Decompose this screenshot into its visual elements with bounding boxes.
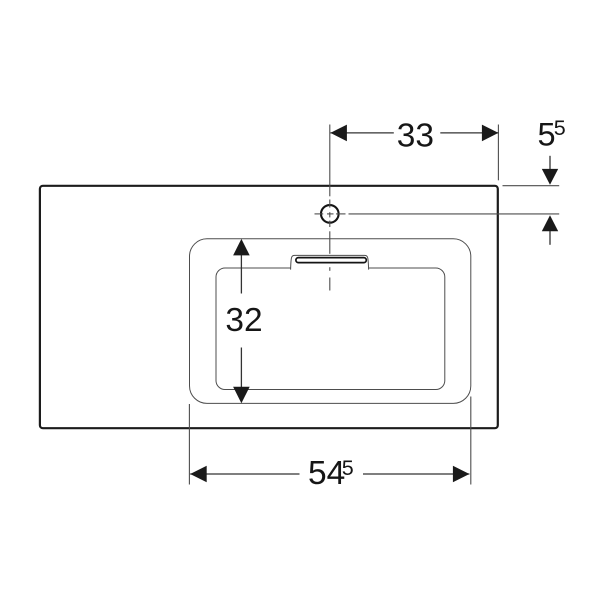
- extension line right (54.5 dim): [470, 397, 472, 485]
- extension line right (33 dim): [497, 125, 499, 181]
- overflow slot: [296, 258, 366, 263]
- dimension line 54.5: [190, 473, 469, 475]
- arrow down (32): [233, 387, 250, 404]
- basin inner wall (top edge interrupted by overflow): [216, 268, 445, 390]
- svg-text:32: 32: [225, 302, 262, 339]
- tap hole: [321, 205, 339, 223]
- svg-text:54: 54: [308, 455, 345, 492]
- svg-text:5: 5: [342, 456, 354, 480]
- countertop outline: [40, 186, 498, 428]
- basin outer rim: [190, 239, 471, 404]
- svg-text:5: 5: [554, 116, 566, 140]
- overflow recess outline: [291, 255, 369, 269]
- arrow left (54.5): [190, 466, 207, 483]
- tap hole vertical centerline / extension for 33: [329, 125, 331, 291]
- tap hole horizontal centerline extended right: [315, 213, 560, 215]
- arrow right (54.5): [453, 466, 470, 483]
- dimension line 32: [240, 246, 242, 398]
- arrow up (5.5): [542, 215, 558, 231]
- dimension line 33: [330, 132, 498, 134]
- extension line left (54.5 dim): [188, 404, 190, 485]
- arrow left (33): [330, 125, 347, 142]
- svg-text:33: 33: [397, 118, 434, 155]
- countertop top edge extension (5.5 dim): [503, 185, 560, 187]
- arrow right (33): [482, 125, 499, 142]
- arrow up (32): [233, 239, 250, 256]
- arrow down (5.5): [549, 156, 551, 170]
